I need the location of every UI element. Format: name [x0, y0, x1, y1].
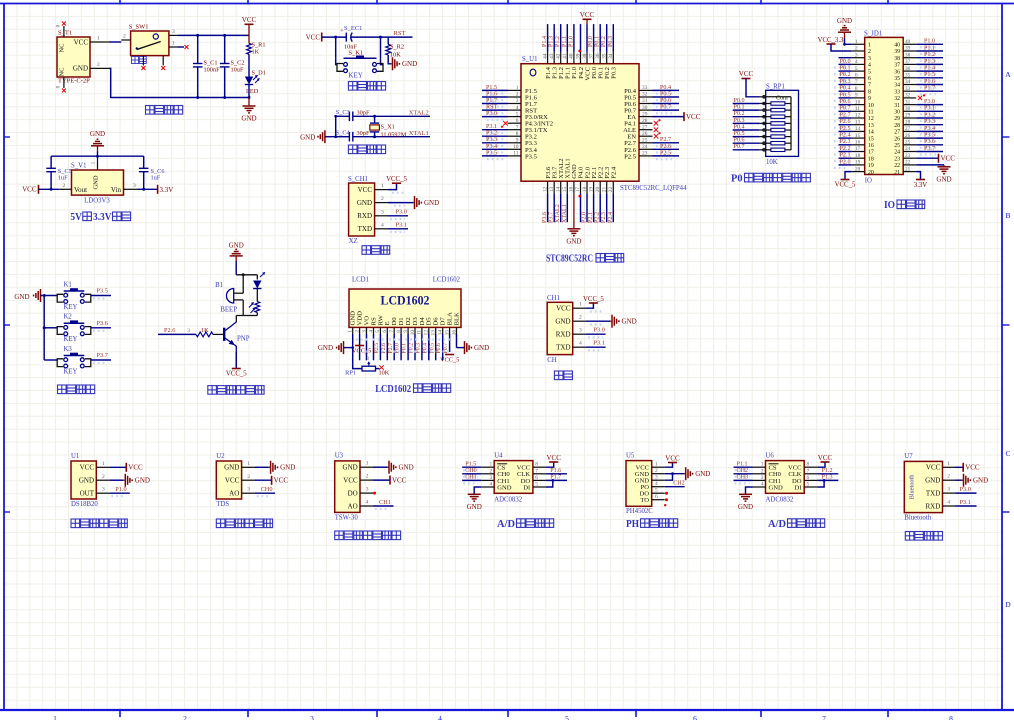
svg-text:1: 1: [761, 462, 764, 468]
svg-text:GND: GND: [343, 464, 358, 472]
svg-text:5: 5: [565, 714, 569, 720]
svg-text:B1: B1: [215, 282, 223, 289]
svg-text:S_R2: S_R2: [390, 44, 404, 51]
svg-text:31: 31: [894, 103, 900, 109]
svg-text:17: 17: [868, 150, 874, 156]
svg-text:29: 29: [894, 116, 900, 122]
svg-text:38: 38: [894, 56, 900, 62]
svg-text:2: 2: [761, 468, 764, 474]
svg-text:3: 3: [381, 209, 384, 215]
svg-text:P1.3: P1.3: [924, 59, 935, 65]
svg-text:4: 4: [381, 222, 384, 228]
svg-text:2: 2: [247, 474, 250, 480]
svg-text:14: 14: [855, 126, 861, 132]
svg-text:2: 2: [489, 468, 492, 474]
svg-text:4: 4: [438, 714, 442, 720]
svg-text:10K: 10K: [379, 370, 390, 377]
svg-text:38: 38: [905, 52, 911, 58]
svg-text:16: 16: [569, 186, 575, 192]
svg-text:7: 7: [855, 79, 858, 85]
svg-text:U5: U5: [626, 452, 635, 459]
svg-text:U7: U7: [904, 453, 913, 460]
svg-text:GND: GND: [695, 470, 710, 478]
svg-text:OUT: OUT: [80, 490, 95, 498]
svg-text:19: 19: [588, 186, 594, 192]
svg-text:14: 14: [868, 130, 874, 136]
svg-text:P2.1: P2.1: [588, 212, 594, 223]
svg-text:P2.3: P2.3: [840, 139, 851, 145]
svg-text:ADC0832: ADC0832: [494, 497, 523, 504]
svg-text:K1: K1: [64, 281, 72, 288]
svg-text:CH0: CH0: [261, 486, 273, 493]
svg-text:P0.5: P0.5: [660, 91, 671, 97]
svg-text:1: 1: [868, 43, 871, 49]
svg-text:3: 3: [247, 487, 250, 493]
svg-text:4: 4: [368, 330, 374, 333]
svg-text:S_RP1: S_RP1: [766, 83, 785, 90]
svg-text:P2.6: P2.6: [840, 119, 851, 125]
svg-text:4: 4: [579, 341, 582, 347]
svg-text:40: 40: [905, 39, 911, 45]
svg-text:2: 2: [381, 196, 384, 202]
svg-text:35: 35: [905, 73, 911, 79]
svg-text:13: 13: [868, 123, 874, 129]
svg-text:2: 2: [868, 49, 871, 55]
svg-text:GND: GND: [474, 344, 489, 352]
svg-text:10uF: 10uF: [231, 67, 244, 74]
svg-text:XTAL2: XTAL2: [555, 204, 561, 223]
svg-text:NC: NC: [59, 43, 66, 52]
svg-text:VCC: VCC: [358, 186, 373, 194]
svg-text:GND: GND: [93, 175, 100, 189]
svg-text:Vin: Vin: [111, 186, 122, 194]
svg-text:P3.5: P3.5: [525, 153, 538, 160]
svg-text:P0.0: P0.0: [840, 59, 851, 65]
svg-text:10K: 10K: [766, 159, 778, 166]
svg-text:7: 7: [516, 124, 519, 130]
svg-text:3: 3: [366, 487, 369, 493]
svg-text:2: 2: [97, 62, 100, 68]
svg-text:28: 28: [642, 118, 648, 124]
svg-text:P3.4: P3.4: [486, 144, 497, 150]
svg-text:P0.3: P0.3: [734, 118, 745, 124]
svg-text:6: 6: [868, 76, 871, 82]
svg-text:Vout: Vout: [74, 186, 87, 194]
svg-text:KEY: KEY: [64, 368, 78, 375]
svg-text:16: 16: [868, 143, 874, 149]
svg-text:KEY: KEY: [64, 336, 78, 343]
svg-text:17: 17: [855, 146, 861, 152]
svg-text:P2.7: P2.7: [388, 343, 394, 354]
svg-text:PH4502C: PH4502C: [626, 508, 653, 515]
svg-text:P2.7: P2.7: [840, 112, 851, 118]
svg-text:S_CH1: S_CH1: [348, 176, 368, 183]
svg-text:CH2: CH2: [737, 468, 749, 474]
svg-text:P0.0: P0.0: [588, 36, 594, 47]
svg-text:2: 2: [516, 92, 519, 98]
svg-text:LCD1: LCD1: [352, 277, 369, 284]
svg-text:RXD: RXD: [357, 212, 372, 220]
svg-text:P3.5: P3.5: [486, 150, 497, 156]
svg-text:VCC_5: VCC_5: [583, 296, 604, 303]
svg-text:17: 17: [575, 187, 581, 193]
svg-text:P3.5: P3.5: [924, 133, 935, 139]
svg-text:35: 35: [894, 76, 900, 82]
svg-text:42: 42: [556, 53, 562, 59]
svg-text:AO: AO: [348, 502, 358, 510]
svg-text:GND: GND: [300, 133, 315, 141]
svg-text:P1.3: P1.3: [549, 36, 555, 47]
svg-text:A: A: [1005, 70, 1011, 79]
svg-text:GND: GND: [79, 477, 94, 485]
svg-text:P0.1: P0.1: [840, 66, 851, 72]
svg-text:10: 10: [855, 99, 861, 105]
svg-text:18: 18: [868, 156, 874, 162]
svg-text:VCC: VCC: [546, 454, 561, 462]
svg-text:6: 6: [535, 475, 538, 481]
svg-text:3: 3: [868, 56, 871, 62]
svg-text:P1.1: P1.1: [924, 45, 935, 51]
svg-text:P2.0: P2.0: [582, 212, 588, 223]
svg-text:DI: DI: [523, 484, 530, 491]
svg-text:21: 21: [894, 170, 900, 176]
svg-text:P0.2: P0.2: [601, 36, 607, 47]
svg-text:37: 37: [905, 59, 911, 65]
svg-text:VCC: VCC: [128, 464, 143, 472]
svg-text:S_V1: S_V1: [71, 163, 87, 170]
svg-text:37: 37: [588, 53, 594, 59]
svg-text:7: 7: [807, 468, 810, 474]
svg-text:P0.4: P0.4: [660, 85, 671, 91]
svg-text:3.3V: 3.3V: [93, 212, 112, 223]
svg-text:5V: 5V: [70, 212, 82, 223]
svg-text:2: 2: [855, 46, 858, 52]
svg-text:25: 25: [642, 138, 648, 144]
svg-text:XTAL1: XTAL1: [562, 204, 568, 223]
svg-text:DI: DI: [795, 484, 802, 491]
svg-text:33: 33: [894, 89, 900, 95]
svg-text:P2.5: P2.5: [624, 153, 637, 160]
svg-text:VCC: VCC: [80, 464, 95, 472]
svg-text:23: 23: [642, 151, 648, 157]
svg-text:ADC0832: ADC0832: [766, 497, 795, 504]
svg-text:43: 43: [549, 53, 555, 59]
svg-text:P1.6: P1.6: [924, 79, 935, 85]
svg-text:VCC_5: VCC_5: [835, 182, 856, 189]
svg-text:U1: U1: [71, 453, 79, 460]
svg-text:8: 8: [855, 86, 858, 92]
svg-text:P3.3: P3.3: [486, 137, 497, 143]
svg-text:GND: GND: [14, 293, 29, 301]
svg-text:8: 8: [535, 462, 538, 468]
svg-text:30: 30: [894, 110, 900, 116]
svg-text:32: 32: [894, 96, 900, 102]
svg-text:P3.0: P3.0: [924, 99, 935, 105]
svg-text:11: 11: [868, 110, 874, 116]
svg-text:31: 31: [642, 98, 648, 104]
svg-text:34: 34: [894, 83, 900, 89]
svg-text:P2.2: P2.2: [840, 146, 851, 152]
svg-text:NC: NC: [59, 67, 66, 76]
svg-text:20: 20: [868, 170, 874, 176]
svg-text:GND: GND: [135, 477, 150, 485]
svg-text:39: 39: [575, 53, 581, 59]
svg-text:P2.4: P2.4: [608, 212, 614, 223]
svg-text:XZ: XZ: [349, 238, 358, 245]
svg-text:13: 13: [855, 119, 861, 125]
svg-text:1: 1: [855, 39, 858, 45]
svg-text:1: 1: [172, 41, 175, 47]
svg-text:3: 3: [172, 29, 175, 35]
svg-text:1: 1: [516, 85, 519, 91]
svg-text:C: C: [1005, 449, 1010, 458]
svg-text:TSW-30: TSW-30: [335, 514, 359, 521]
svg-text:5: 5: [655, 488, 658, 494]
svg-text:CH0: CH0: [465, 468, 477, 474]
svg-text:CH2: CH2: [673, 481, 685, 487]
svg-text:P3.1: P3.1: [594, 340, 605, 347]
svg-text:5: 5: [516, 111, 519, 117]
svg-text:1: 1: [366, 461, 369, 467]
svg-text:9: 9: [516, 138, 519, 144]
svg-text:36: 36: [905, 66, 911, 72]
svg-text:LDO3V3: LDO3V3: [84, 198, 110, 205]
svg-text:P3.4: P3.4: [924, 126, 935, 132]
svg-text:5: 5: [375, 330, 381, 333]
svg-text:4: 4: [855, 59, 858, 65]
svg-text:P0.7: P0.7: [840, 106, 851, 112]
svg-text:VCC: VCC: [306, 34, 321, 42]
svg-text:3: 3: [947, 487, 950, 493]
svg-text:S_X1: S_X1: [381, 124, 395, 131]
svg-text:P1.7: P1.7: [486, 98, 497, 104]
svg-text:LED: LED: [246, 88, 259, 95]
svg-text:P2.6: P2.6: [660, 144, 671, 150]
svg-text:32: 32: [905, 93, 911, 99]
svg-text:44: 44: [542, 53, 548, 59]
svg-text:3: 3: [310, 714, 314, 720]
svg-text:TYPE-C-2P: TYPE-C-2P: [58, 78, 90, 85]
svg-text:P0.3: P0.3: [415, 343, 421, 354]
svg-text:VCC: VCC: [686, 113, 701, 121]
svg-text:5: 5: [807, 482, 810, 488]
svg-text:KEY: KEY: [64, 304, 78, 311]
svg-text:3: 3: [655, 475, 658, 481]
svg-text:RST: RST: [486, 105, 497, 111]
svg-text:0: 0: [56, 85, 62, 88]
svg-text:P3.1: P3.1: [486, 124, 497, 130]
svg-text:P3.0: P3.0: [486, 111, 497, 117]
svg-text:21: 21: [602, 187, 608, 193]
svg-text:Bluetooth: Bluetooth: [908, 474, 915, 500]
svg-text:3.3V: 3.3V: [914, 182, 927, 189]
svg-text:S_D1: S_D1: [252, 70, 266, 77]
svg-text:6: 6: [516, 118, 519, 124]
svg-text:33: 33: [642, 85, 648, 91]
svg-text:BLK: BLK: [453, 312, 460, 326]
svg-text:3: 3: [516, 98, 519, 104]
svg-text:P2.5: P2.5: [660, 150, 671, 156]
svg-text:P3.6: P3.6: [924, 139, 935, 145]
svg-text:41: 41: [562, 53, 568, 59]
svg-text:GND: GND: [738, 503, 753, 511]
svg-text:P3.7: P3.7: [97, 352, 108, 359]
svg-text:P0.6: P0.6: [840, 99, 851, 105]
svg-text:1: 1: [97, 36, 100, 42]
svg-text:P3.6: P3.6: [542, 212, 548, 223]
svg-text:LCD1602: LCD1602: [433, 277, 461, 284]
svg-text:GND: GND: [566, 237, 581, 245]
svg-text:P0.3: P0.3: [611, 66, 618, 79]
svg-text:GND: GND: [622, 318, 637, 326]
svg-text:GND: GND: [73, 65, 88, 73]
svg-text:S_R1: S_R1: [252, 42, 266, 49]
svg-text:23: 23: [894, 156, 900, 162]
svg-text:P2.5: P2.5: [840, 126, 851, 132]
svg-text:TXD: TXD: [926, 490, 940, 498]
svg-text:S_C2: S_C2: [231, 60, 245, 67]
svg-text:VCC: VCC: [343, 477, 358, 485]
svg-text:2: 2: [366, 474, 369, 480]
svg-text:PNP: PNP: [237, 336, 250, 343]
svg-text:S_C4: S_C4: [336, 130, 351, 137]
svg-text:1K: 1K: [252, 49, 260, 56]
svg-text:1: 1: [247, 461, 250, 467]
svg-text:P2.2: P2.2: [595, 212, 601, 223]
svg-text:DS18B20: DS18B20: [71, 501, 98, 508]
svg-text:P0.0: P0.0: [734, 98, 745, 104]
svg-text:9: 9: [403, 330, 409, 333]
svg-text:25: 25: [894, 143, 900, 149]
svg-text:VCC: VCC: [926, 464, 941, 472]
svg-text:30: 30: [642, 105, 648, 111]
svg-text:P3.5: P3.5: [97, 288, 108, 295]
svg-text:4: 4: [655, 481, 658, 487]
svg-text:P2.4: P2.4: [611, 166, 618, 179]
svg-text:8: 8: [396, 330, 402, 333]
svg-text:U3: U3: [335, 453, 344, 460]
svg-text:4: 4: [516, 105, 519, 111]
svg-text:VCC_3.3: VCC_3.3: [818, 37, 844, 44]
svg-text:21: 21: [905, 166, 911, 172]
svg-text:Bluetooth: Bluetooth: [904, 514, 931, 521]
svg-text:30pF: 30pF: [357, 130, 370, 137]
svg-text:16: 16: [855, 140, 861, 146]
svg-text:39: 39: [905, 46, 911, 52]
svg-text:P0.6: P0.6: [734, 138, 745, 144]
svg-text:P1.2: P1.2: [924, 52, 935, 58]
svg-text:2: 2: [183, 714, 187, 720]
svg-text:RP1: RP1: [345, 370, 356, 377]
svg-text:LCD1602: LCD1602: [375, 384, 411, 395]
svg-text:CH: CH: [547, 357, 557, 364]
svg-text:4: 4: [947, 500, 950, 506]
svg-text:RST: RST: [394, 30, 406, 37]
svg-text:S_JD1: S_JD1: [864, 30, 882, 37]
svg-text:40: 40: [569, 53, 575, 59]
svg-text:P0.3: P0.3: [608, 36, 614, 47]
svg-text:GND: GND: [925, 477, 940, 485]
svg-text:P1.5: P1.5: [486, 85, 497, 91]
svg-text:4: 4: [489, 482, 492, 488]
svg-text:10: 10: [513, 144, 519, 150]
svg-text:S_C1: S_C1: [204, 60, 218, 67]
svg-text:GND: GND: [424, 199, 439, 207]
svg-text:P1.0: P1.0: [115, 486, 126, 493]
svg-text:P3.1: P3.1: [396, 221, 407, 228]
svg-text:P1.6: P1.6: [550, 468, 561, 474]
svg-text:GND: GND: [357, 199, 372, 207]
svg-text:VCC: VCC: [556, 305, 571, 313]
svg-text:GND: GND: [224, 464, 239, 472]
svg-text:8: 8: [868, 89, 871, 95]
svg-text:VCC: VCC: [392, 477, 407, 485]
svg-text:32: 32: [642, 92, 648, 98]
svg-text:VCC_5: VCC_5: [226, 371, 247, 378]
svg-text:1uF: 1uF: [151, 174, 161, 181]
svg-text:24: 24: [642, 144, 648, 150]
svg-text:25: 25: [905, 140, 911, 146]
svg-text:GND: GND: [402, 60, 417, 68]
svg-text:P1.6: P1.6: [486, 91, 497, 97]
svg-text:4: 4: [366, 500, 369, 506]
svg-text:P1.5: P1.5: [924, 72, 935, 78]
svg-text:1: 1: [53, 714, 57, 720]
svg-text:3: 3: [489, 475, 492, 481]
svg-text:IO: IO: [865, 178, 872, 185]
svg-text:8: 8: [516, 131, 519, 137]
svg-text:STC89C52RC_LQFP44: STC89C52RC_LQFP44: [620, 185, 687, 192]
svg-text:P1.2: P1.2: [555, 36, 561, 47]
svg-text:P0.5: P0.5: [734, 131, 745, 137]
svg-text:P1.7: P1.7: [924, 86, 935, 92]
svg-text:PH: PH: [626, 519, 639, 530]
svg-text:7: 7: [822, 714, 826, 720]
svg-text:30pF: 30pF: [357, 109, 370, 116]
svg-text:CH1: CH1: [379, 499, 391, 506]
svg-text:P0.3: P0.3: [840, 79, 851, 85]
svg-text:VCC: VCC: [941, 155, 956, 163]
svg-text:1: 1: [489, 462, 492, 468]
svg-text:P2.6: P2.6: [164, 327, 175, 334]
svg-text:P2.0: P2.0: [840, 159, 851, 165]
svg-text:11: 11: [855, 106, 860, 112]
svg-text:100nF: 100nF: [204, 67, 221, 74]
svg-text:39: 39: [894, 49, 900, 55]
svg-text:6: 6: [382, 330, 388, 333]
svg-text:P3.2: P3.2: [924, 112, 935, 118]
svg-text:P3.6: P3.6: [97, 320, 108, 327]
svg-text:VCC: VCC: [74, 39, 89, 47]
svg-text:40: 40: [894, 43, 900, 49]
svg-text:GND: GND: [90, 130, 105, 138]
svg-text:20: 20: [595, 186, 601, 192]
svg-text:2: 2: [655, 468, 658, 474]
svg-text:P1.1: P1.1: [562, 36, 568, 47]
svg-text:P1.4: P1.4: [542, 36, 548, 47]
svg-text:A/D: A/D: [497, 519, 515, 530]
svg-text:P0.7: P0.7: [660, 105, 671, 111]
svg-text:22: 22: [608, 187, 614, 193]
svg-text:XTAL1: XTAL1: [409, 130, 429, 137]
svg-text:P0.6: P0.6: [436, 343, 442, 354]
svg-text:RXD: RXD: [556, 331, 571, 339]
svg-text:3: 3: [579, 328, 582, 334]
svg-text:9: 9: [855, 93, 858, 99]
svg-text:22: 22: [905, 160, 911, 166]
svg-text:29: 29: [905, 113, 911, 119]
svg-text:P3.0: P3.0: [396, 208, 407, 215]
